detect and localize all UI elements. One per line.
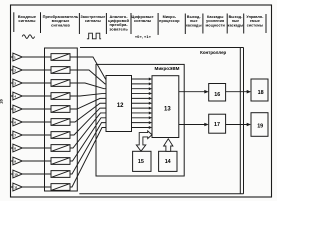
svg-text:16: 16	[214, 92, 220, 98]
svg-text:12: 12	[117, 103, 124, 109]
svg-text:системы: системы	[247, 23, 263, 27]
svg-text:3: 3	[14, 81, 16, 85]
svg-text:2: 2	[14, 68, 16, 72]
svg-text:каскады: каскады	[228, 23, 244, 27]
svg-text:15: 15	[138, 159, 144, 165]
svg-text:17: 17	[214, 122, 220, 128]
svg-text:процессор: процессор	[159, 19, 180, 23]
svg-text:сигналы: сигналы	[134, 18, 152, 23]
svg-text:Контроллер: Контроллер	[200, 50, 226, 55]
svg-text:5: 5	[14, 107, 16, 111]
svg-text:8: 8	[14, 146, 16, 150]
svg-text:11: 11	[14, 185, 18, 189]
svg-text:9: 9	[14, 159, 16, 163]
svg-text:1: 1	[14, 56, 16, 60]
svg-text:4: 4	[14, 94, 16, 98]
svg-text:16: 16	[0, 99, 4, 104]
svg-text:13: 13	[164, 107, 171, 113]
svg-text:6: 6	[14, 120, 16, 124]
svg-text:14: 14	[165, 159, 171, 165]
svg-text:сигналов: сигналов	[51, 22, 70, 27]
svg-text:МикроЭВМ: МикроЭВМ	[155, 66, 180, 71]
svg-text:зователь: зователь	[109, 26, 128, 31]
svg-text:«0», «1»: «0», «1»	[135, 34, 151, 39]
svg-text:мощности: мощности	[205, 23, 225, 27]
svg-text:19: 19	[257, 123, 263, 129]
svg-text:7: 7	[14, 133, 16, 137]
svg-text:сигналы: сигналы	[85, 19, 101, 23]
svg-text:18: 18	[258, 90, 264, 96]
svg-text:сигналы: сигналы	[18, 18, 36, 23]
svg-text:каскады: каскады	[186, 23, 202, 27]
svg-text:10: 10	[14, 172, 18, 176]
